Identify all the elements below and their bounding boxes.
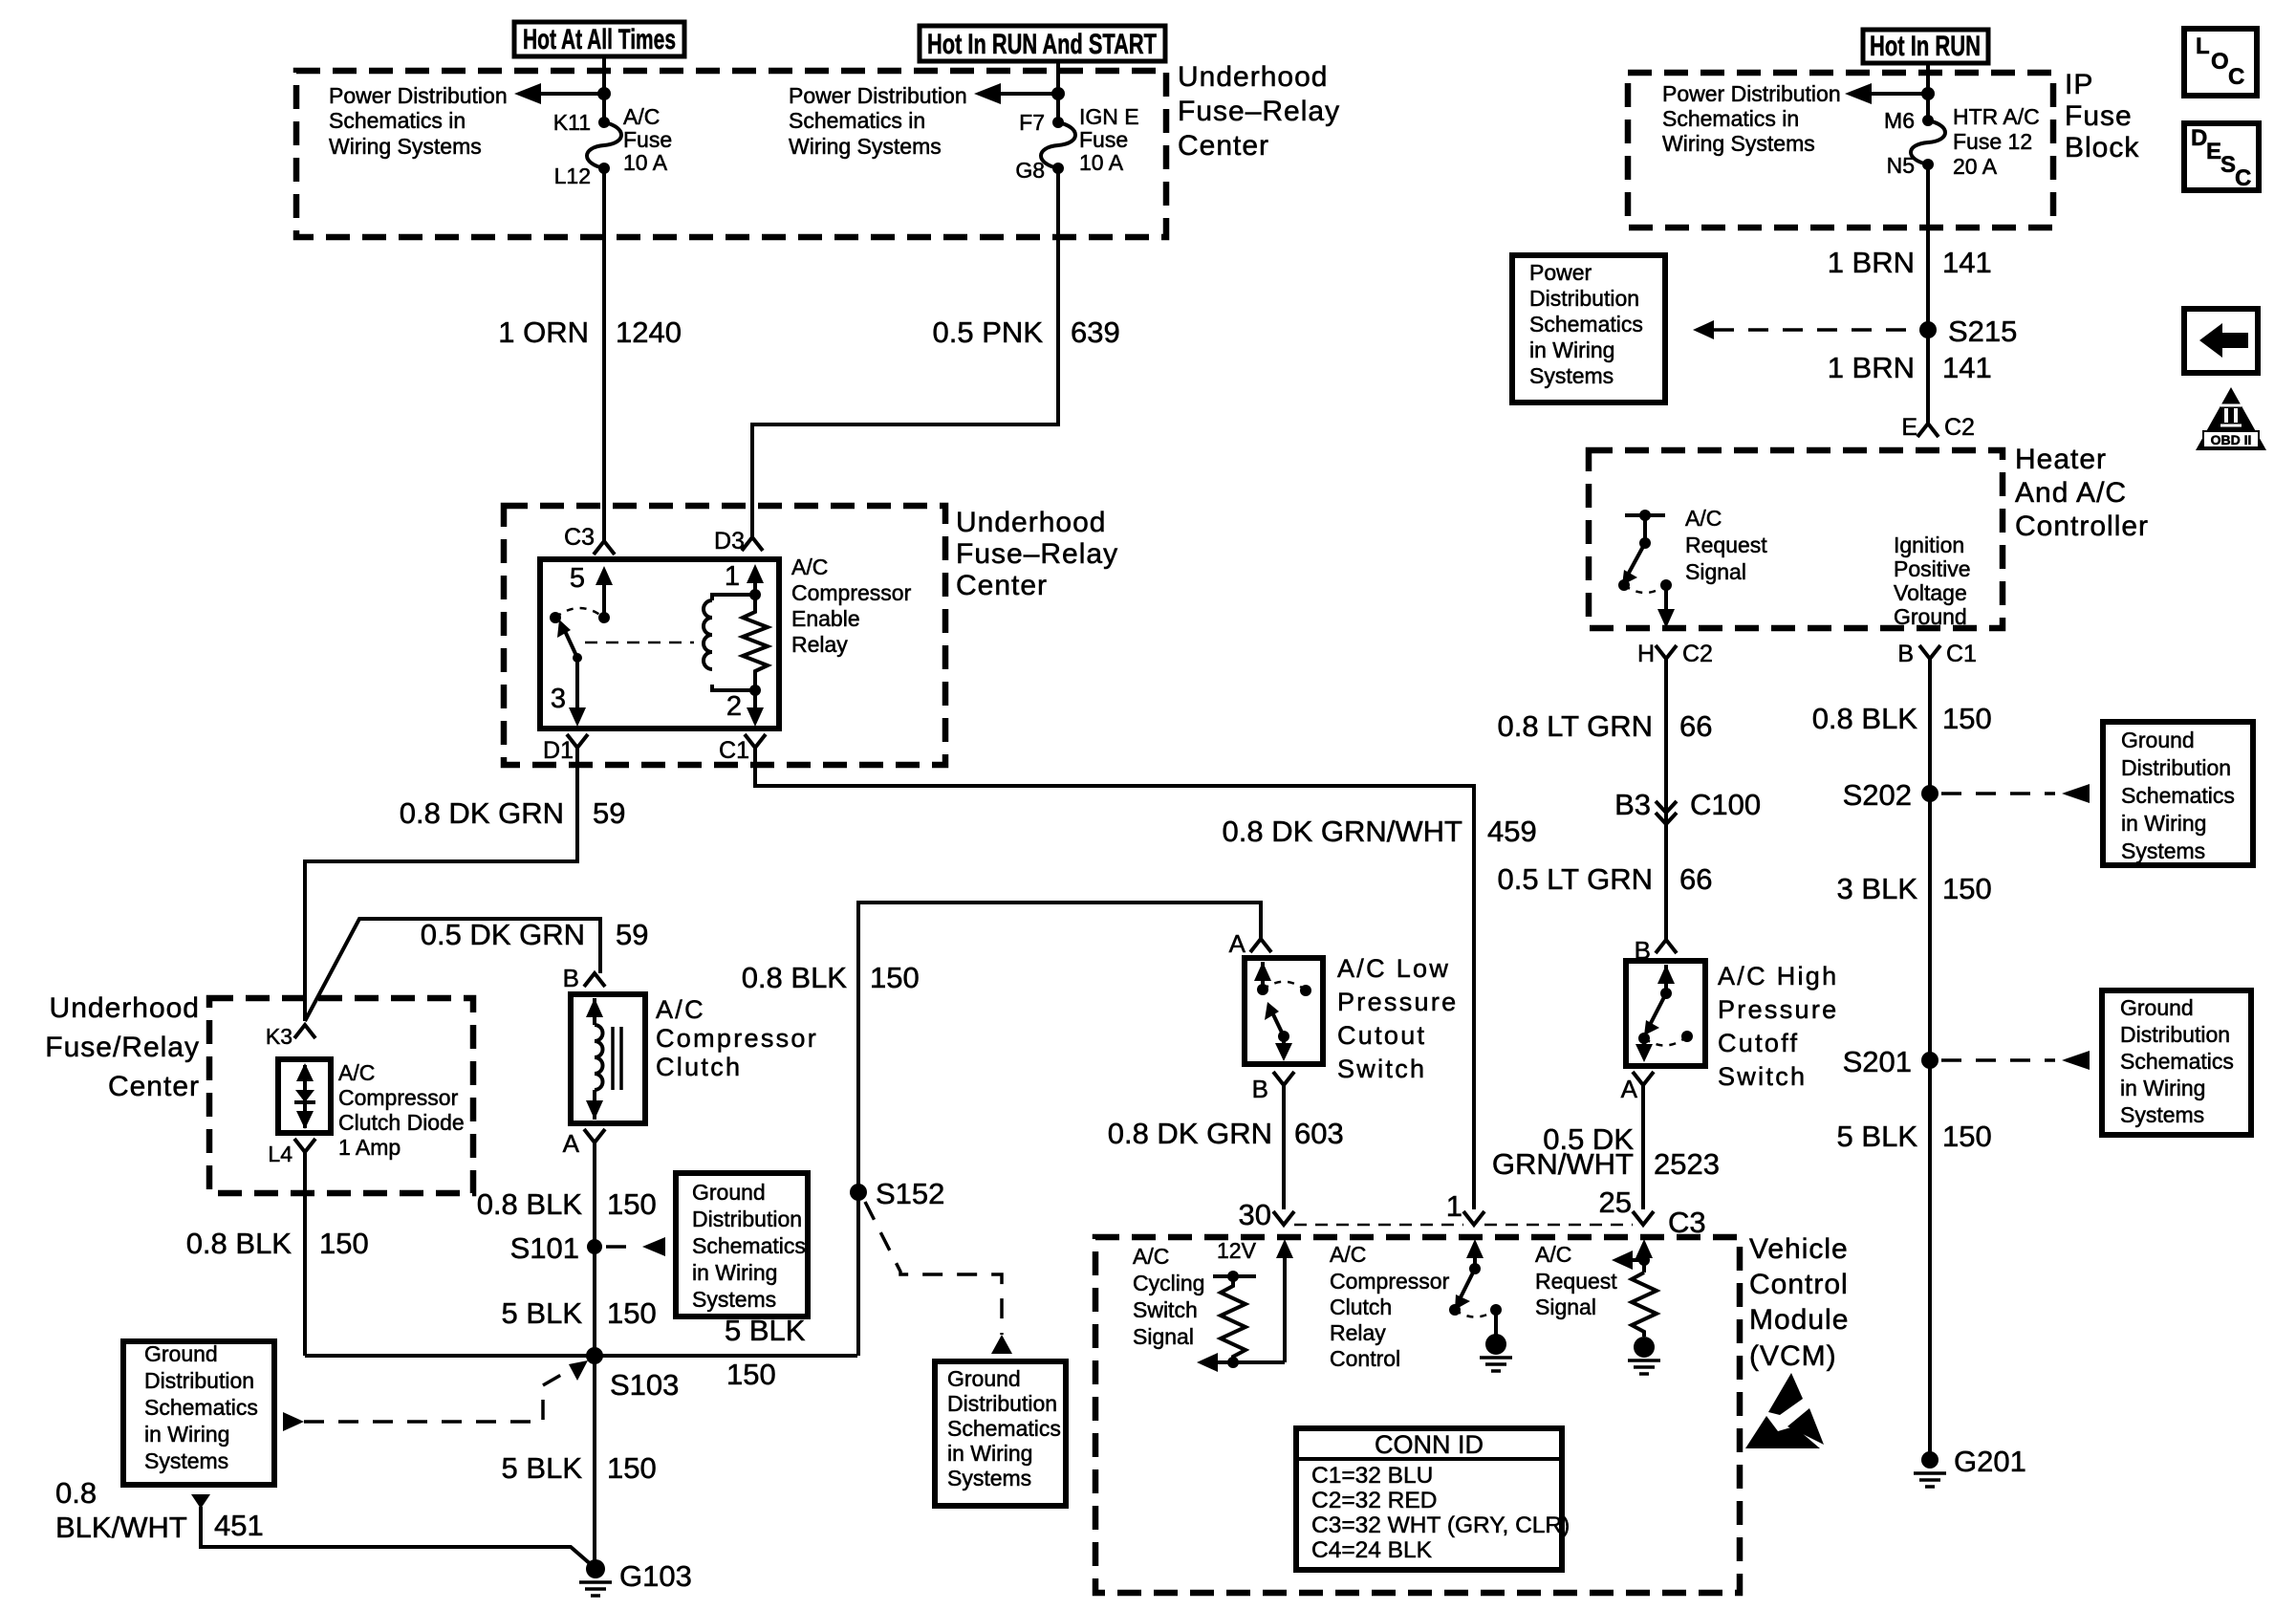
svg-text:Fuse–Relay: Fuse–Relay: [1178, 96, 1340, 127]
switch S-A/C Low Pressure Cutout Switch box: [1245, 958, 1323, 1064]
svg-text:5 BLK: 5 BLK: [502, 1451, 583, 1485]
svg-text:Hot In RUN: Hot In RUN: [1870, 31, 1981, 62]
svg-text:150: 150: [607, 1296, 657, 1330]
svg-text:Pressure: Pressure: [1718, 995, 1838, 1024]
svg-text:12V: 12V: [1217, 1238, 1257, 1263]
svg-text:C1: C1: [719, 737, 749, 764]
svg-text:2: 2: [726, 691, 742, 722]
wire arrow to Power Distribution (mid fuse): [974, 83, 1058, 104]
svg-text:A/C: A/C: [1133, 1244, 1169, 1269]
wire 0.8 DK GRN/WHT 459: relay C1 to VCM pin 1: [755, 748, 1474, 1209]
svg-text:Underhood: Underhood: [956, 507, 1106, 538]
svg-text:Schematics: Schematics: [2120, 1049, 2234, 1074]
wire label 5 BLK 150 (above S103): [502, 1296, 657, 1330]
Power Distribution Schematics in Wiring Systems text (left): [329, 83, 508, 159]
svg-text:A/C Low: A/C Low: [1337, 954, 1450, 983]
box Ground Distribution Schematics (S152): [935, 1361, 1066, 1506]
svg-text:0.5 DK GRN: 0.5 DK GRN: [421, 918, 585, 951]
label Underhood Fuse/Relay Center: [45, 992, 200, 1102]
svg-text:Distribution: Distribution: [2121, 755, 2231, 780]
svg-text:B3: B3: [1614, 788, 1651, 821]
svg-text:Schematics in: Schematics in: [1662, 106, 1799, 131]
wire label 0.8 BLK 150 (right): [1812, 702, 1992, 735]
svg-text:S202: S202: [1843, 778, 1912, 812]
svg-text:Enable: Enable: [791, 606, 860, 631]
svg-text:1240: 1240: [616, 315, 682, 349]
svg-text:0.8 DK GRN/WHT: 0.8 DK GRN/WHT: [1223, 815, 1463, 848]
svg-text:Systems: Systems: [1529, 363, 1614, 388]
svg-text:A: A: [1229, 929, 1246, 958]
box Ground Distribution Schematics (S103): [123, 1341, 274, 1485]
svg-text:5 BLK: 5 BLK: [1837, 1120, 1918, 1153]
svg-text:0.8 BLK: 0.8 BLK: [477, 1187, 583, 1221]
svg-text:A: A: [1621, 1075, 1638, 1103]
node E C2 connector into controller: [1901, 414, 1975, 441]
svg-text:in Wiring: in Wiring: [2121, 811, 2206, 836]
value A/C Fuse 10 A: [623, 104, 672, 175]
label A/C Request Signal (VCM): [1535, 1242, 1617, 1319]
wire arrow to Power Distribution (IP): [1845, 83, 1928, 104]
svg-text:Fuse/Relay: Fuse/Relay: [45, 1032, 200, 1063]
svg-text:59: 59: [616, 918, 648, 951]
svg-text:C4=24 BLK: C4=24 BLK: [1311, 1537, 1433, 1563]
svg-text:C1: C1: [1946, 641, 1977, 667]
box Ground Distribution Schematics (S101): [676, 1173, 808, 1316]
svg-text:A/C: A/C: [1330, 1242, 1366, 1267]
svg-text:B: B: [563, 964, 579, 992]
svg-text:Underhood: Underhood: [1178, 61, 1328, 93]
svg-text:L4: L4: [268, 1142, 292, 1166]
svg-text:Schematics: Schematics: [2121, 783, 2235, 808]
svg-text:0.8 BLK: 0.8 BLK: [186, 1227, 292, 1260]
svg-text:L: L: [2196, 33, 2210, 59]
ground G201: [1914, 1445, 2026, 1487]
svg-text:Hot At All Times: Hot At All Times: [523, 24, 676, 55]
label Heater And A/C Controller: [2015, 444, 2149, 542]
svg-text:Vehicle: Vehicle: [1749, 1233, 1849, 1265]
svg-text:C: C: [2235, 165, 2251, 191]
svg-text:150: 150: [1942, 872, 1992, 905]
svg-text:Center: Center: [1178, 130, 1269, 162]
header box Hot In RUN And START: [920, 26, 1165, 61]
svg-text:Block: Block: [2065, 132, 2139, 163]
wire dashed reference S103: [283, 1360, 588, 1431]
svg-text:in Wiring: in Wiring: [2120, 1076, 2205, 1100]
svg-text:K3: K3: [266, 1024, 292, 1049]
wire cycling signal with arrows: [1197, 1239, 1293, 1372]
svg-text:H: H: [1637, 641, 1655, 667]
svg-text:Relay: Relay: [791, 632, 848, 657]
svg-text:Clutch Diode: Clutch Diode: [338, 1110, 465, 1135]
fuse M6/N5 HTR A/C Fuse 12 20 A: [1911, 115, 1945, 170]
svg-text:Schematics in: Schematics in: [789, 108, 925, 133]
svg-text:5 BLK: 5 BLK: [725, 1314, 806, 1347]
svg-text:Fuse: Fuse: [1079, 127, 1128, 152]
wire label 0.5 DK GRN/WHT 2523: [1492, 1122, 1720, 1181]
svg-text:BLK/WHT: BLK/WHT: [55, 1511, 187, 1544]
relay switch arm: [557, 620, 577, 658]
svg-text:150: 150: [1942, 1120, 1992, 1153]
wire dashed reference S202: [1941, 784, 2090, 803]
svg-text:0.8 BLK: 0.8 BLK: [742, 961, 848, 994]
box Ground Distribution Schematics (S201): [2102, 990, 2251, 1135]
svg-text:And A/C: And A/C: [2015, 477, 2127, 509]
wire label 1 ORN 1240: [498, 315, 682, 349]
svg-text:L12: L12: [554, 163, 591, 188]
svg-text:Distribution: Distribution: [1529, 286, 1639, 311]
wire dashed reference S201: [1941, 1051, 2090, 1070]
wire label 0.5 LT GRN 66: [1497, 862, 1712, 896]
svg-text:25: 25: [1599, 1186, 1632, 1219]
svg-text:Signal: Signal: [1535, 1295, 1596, 1319]
wire clutch A to G103: [593, 1142, 596, 1566]
svg-text:Underhood: Underhood: [50, 992, 200, 1024]
label A/C Compressor Clutch: [656, 995, 818, 1081]
svg-text:Ground: Ground: [144, 1341, 218, 1366]
wire label 0.8 BLK 150 (left): [186, 1227, 369, 1260]
wire 0.5 DK GRN/WHT 2523: high switch A to VCM pin 25: [1641, 1085, 1645, 1209]
node B connector clutch: [563, 964, 605, 992]
node A connector high pressure switch: [1621, 1072, 1654, 1103]
svg-text:A/C: A/C: [338, 1060, 375, 1085]
label Underhood Fuse-Relay Center (top): [1178, 61, 1340, 162]
svg-text:A/C: A/C: [1685, 506, 1722, 531]
label A/C Compressor Enable Relay: [791, 555, 912, 657]
label Vehicle Control Module (VCM): [1749, 1233, 1849, 1372]
relay K-A/C Compressor Enable Relay box: [540, 559, 779, 729]
dashed box Underhood Fuse-Relay Center (top): [296, 71, 1166, 237]
svg-text:Distribution: Distribution: [947, 1391, 1057, 1416]
svg-text:150: 150: [607, 1187, 657, 1221]
svg-text:Ground: Ground: [2121, 728, 2195, 752]
svg-text:Wiring Systems: Wiring Systems: [789, 134, 942, 159]
svg-text:S152: S152: [876, 1177, 944, 1210]
node B C1 connector: [1897, 641, 1977, 667]
svg-text:Power Distribution: Power Distribution: [789, 83, 967, 108]
node D3 connector into relay: [714, 528, 763, 555]
node junction on IP fuse wire: [1921, 87, 1935, 100]
wire thin dashed pin row VCM: [1294, 1224, 1633, 1227]
wire label 0.5 PNK 639: [933, 315, 1120, 349]
svg-text:Distribution: Distribution: [144, 1368, 254, 1393]
svg-text:Relay: Relay: [1330, 1320, 1386, 1345]
svg-text:Schematics in: Schematics in: [329, 108, 466, 133]
svg-text:HTR A/C: HTR A/C: [1953, 104, 2040, 129]
svg-text:C2: C2: [1682, 641, 1713, 667]
svg-text:CONN ID: CONN ID: [1375, 1430, 1484, 1459]
value IGN E Fuse 10 A: [1079, 104, 1139, 175]
node pin 30 connector VCM: [1239, 1198, 1294, 1231]
svg-text:Hot In RUN And START: Hot In RUN And START: [927, 29, 1157, 60]
wire dashed reference S101: [606, 1237, 665, 1256]
svg-text:639: 639: [1071, 315, 1120, 349]
node pin 1 connector VCM: [1446, 1189, 1484, 1225]
fuse F7/G8 IGN E Fuse 10 A: [1041, 117, 1075, 174]
svg-text:10 A: 10 A: [1079, 150, 1124, 175]
svg-text:Ground: Ground: [947, 1366, 1021, 1391]
Power Distribution Schematics in Wiring Systems text (mid): [789, 83, 967, 159]
svg-text:1 ORN: 1 ORN: [498, 315, 589, 349]
svg-text:Cutout: Cutout: [1337, 1021, 1426, 1050]
icon back-arrow box: [2184, 309, 2258, 373]
svg-text:Schematics: Schematics: [144, 1395, 258, 1420]
box Power Distribution Schematics in Wiring (S215): [1512, 255, 1665, 402]
svg-text:Distribution: Distribution: [2120, 1022, 2230, 1047]
relay coil link dashed: [585, 642, 694, 644]
relay switch dashed arc: [555, 608, 604, 618]
svg-text:Ground: Ground: [692, 1180, 766, 1205]
svg-text:in Wiring: in Wiring: [1529, 337, 1614, 362]
svg-text:66: 66: [1679, 862, 1712, 896]
motor M-A/C Compressor Clutch box: [571, 994, 645, 1123]
svg-text:C3=32 WHT (GRY, CLR): C3=32 WHT (GRY, CLR): [1311, 1512, 1570, 1538]
svg-text:A/C: A/C: [791, 555, 828, 579]
svg-text:Signal: Signal: [1685, 559, 1746, 584]
svg-text:N5: N5: [1887, 153, 1915, 178]
svg-text:IGN E: IGN E: [1079, 104, 1139, 129]
wire label 5 BLK 150 (right): [1837, 1120, 1992, 1153]
svg-text:A: A: [563, 1129, 580, 1158]
svg-text:0.8 LT GRN: 0.8 LT GRN: [1497, 709, 1653, 743]
svg-text:0.8 BLK: 0.8 BLK: [1812, 702, 1918, 735]
svg-text:A/C High: A/C High: [1718, 962, 1838, 990]
wire label 0.8 BLK/WHT 451: [55, 1476, 264, 1544]
svg-text:C3: C3: [564, 524, 595, 551]
switch relay control driver: [1449, 1239, 1502, 1335]
ground internal (relay control): [1480, 1334, 1512, 1371]
svg-text:D3: D3: [714, 528, 745, 555]
svg-text:Switch: Switch: [1337, 1055, 1426, 1083]
label A/C Compressor Clutch Relay Control: [1330, 1242, 1450, 1371]
wire 0.5 DK GRN 59: K3 to clutch B (diagonal branch): [305, 919, 600, 1021]
svg-text:GRN/WHT: GRN/WHT: [1492, 1147, 1634, 1181]
header box Hot At All Times: [514, 22, 684, 56]
wire PNK: Hot In RUN And START to relay D3: [752, 61, 1058, 537]
svg-text:D: D: [2191, 125, 2207, 151]
svg-text:B: B: [1252, 1075, 1268, 1103]
node K3 connector: [266, 1024, 315, 1049]
svg-text:E: E: [2206, 139, 2221, 164]
node pin 25 connector VCM: [1599, 1186, 1654, 1225]
relay resistor (internal): [743, 595, 768, 690]
wire label 0.8 DK GRN 59: [400, 796, 626, 830]
svg-text:A/C: A/C: [1535, 1242, 1571, 1267]
svg-text:Module: Module: [1749, 1304, 1849, 1336]
diode D-A/C Compressor Clutch Diode box: [278, 1059, 331, 1133]
svg-text:Request: Request: [1685, 533, 1767, 557]
arrow to ground box (S152): [991, 1335, 1012, 1354]
svg-text:G8: G8: [1015, 158, 1045, 183]
label A/C Compressor Clutch Diode 1 Amp: [338, 1060, 465, 1160]
node H C2 connector: [1637, 641, 1713, 667]
svg-text:Power: Power: [1529, 260, 1592, 285]
svg-text:C1=32 BLU: C1=32 BLU: [1311, 1463, 1433, 1489]
wire 0.8 BLK 150: low pressure switch A to S152/S103 bus: [858, 903, 1261, 1356]
svg-text:Request: Request: [1535, 1269, 1617, 1294]
switch A/C Request Signal (controller): [1618, 510, 1675, 628]
svg-text:Wiring Systems: Wiring Systems: [329, 134, 482, 159]
node junction on PNK wire: [1051, 87, 1065, 100]
svg-text:O: O: [2211, 49, 2229, 75]
relay switch common contact: [550, 612, 561, 623]
svg-text:Ignition: Ignition: [1894, 533, 1964, 557]
dashed box Vehicle Control Module: [1095, 1237, 1740, 1593]
svg-text:Center: Center: [108, 1071, 200, 1102]
svg-text:Positive: Positive: [1894, 556, 1971, 581]
svg-text:A/C: A/C: [656, 995, 705, 1024]
svg-text:D1: D1: [543, 737, 574, 764]
high pressure switch internals: [1635, 965, 1693, 1062]
svg-text:1: 1: [725, 561, 740, 592]
wire label 0.8 DK GRN 603: [1108, 1117, 1344, 1150]
svg-text:Systems: Systems: [692, 1287, 776, 1312]
resistor A/C cycling pull-up: [1213, 1271, 1256, 1368]
svg-text:0.8 DK GRN: 0.8 DK GRN: [400, 796, 564, 830]
svg-text:Compressor: Compressor: [656, 1024, 818, 1053]
svg-text:C2=32 RED: C2=32 RED: [1311, 1488, 1437, 1513]
node L4 connector: [268, 1139, 315, 1166]
clutch coil internals: [586, 998, 621, 1120]
label IP Fuse Block: [2065, 69, 2139, 163]
svg-text:S: S: [2220, 152, 2236, 178]
resistor A/C request sense: [1612, 1239, 1657, 1337]
svg-text:30: 30: [1239, 1198, 1271, 1231]
svg-text:Signal: Signal: [1133, 1324, 1194, 1349]
svg-text:Cutoff: Cutoff: [1718, 1029, 1799, 1057]
svg-text:Systems: Systems: [2121, 838, 2205, 863]
svg-text:C: C: [2228, 64, 2244, 90]
svg-text:Cycling: Cycling: [1133, 1271, 1204, 1295]
wire dashed reference S152: [865, 1202, 1002, 1335]
node S202 splice: [1843, 778, 1939, 812]
svg-text:C2: C2: [1944, 414, 1975, 441]
svg-text:20 A: 20 A: [1953, 154, 1998, 179]
svg-text:Heater: Heater: [2015, 444, 2107, 475]
low pressure switch internals: [1254, 962, 1311, 1061]
svg-text:150: 150: [1942, 702, 1992, 735]
switch S-A/C High Pressure Cutoff Switch box: [1626, 961, 1705, 1066]
svg-text:1: 1: [1446, 1189, 1462, 1223]
label A/C Request Signal (controller): [1685, 506, 1767, 584]
node S152 splice: [850, 1177, 944, 1210]
svg-text:0.5 LT GRN: 0.5 LT GRN: [1497, 862, 1653, 896]
svg-text:Control: Control: [1749, 1269, 1849, 1300]
svg-text:3 BLK: 3 BLK: [1837, 872, 1918, 905]
svg-text:0.8 DK GRN: 0.8 DK GRN: [1108, 1117, 1272, 1150]
svg-text:C100: C100: [1690, 788, 1761, 821]
svg-text:150: 150: [607, 1451, 657, 1485]
node A connector clutch: [563, 1129, 605, 1158]
svg-text:459: 459: [1487, 815, 1537, 848]
wire label 0.8 BLK 150 (clutch): [477, 1187, 657, 1221]
node S103 splice: [586, 1347, 679, 1402]
wire 0.8 BLK 150: L4 to S103 run: [303, 1152, 307, 1356]
svg-text:603: 603: [1294, 1117, 1344, 1150]
svg-text:Fuse–Relay: Fuse–Relay: [956, 538, 1118, 570]
diode symbol internals: [294, 1063, 315, 1129]
svg-text:Ground: Ground: [1894, 604, 1967, 629]
node junction on ORN wire: [597, 87, 611, 100]
svg-text:K11: K11: [553, 110, 591, 135]
svg-text:M6: M6: [1884, 108, 1915, 133]
wire label 3 BLK 150: [1837, 872, 1992, 905]
wire 0.8 DK GRN 59: relay D1 to K3: [305, 748, 577, 1021]
svg-text:Compressor: Compressor: [1330, 1269, 1450, 1294]
dashed box Underhood Fuse/Relay Center: [209, 998, 473, 1193]
wire label 1 BRN 141 (lower): [1828, 351, 1992, 384]
svg-text:141: 141: [1942, 246, 1992, 279]
svg-text:5 BLK: 5 BLK: [502, 1296, 583, 1330]
node A connector low pressure switch: [1229, 929, 1271, 958]
box Ground Distribution Schematics (S202): [2103, 722, 2253, 865]
svg-text:Schematics: Schematics: [947, 1416, 1061, 1441]
svg-text:Power Distribution: Power Distribution: [329, 83, 508, 108]
ground internal (request signal): [1628, 1337, 1660, 1374]
svg-text:Pressure: Pressure: [1337, 988, 1458, 1016]
ground G103: [579, 1559, 692, 1596]
table CONN ID: [1296, 1428, 1570, 1570]
svg-text:Controller: Controller: [2015, 511, 2149, 542]
svg-text:1 Amp: 1 Amp: [338, 1135, 401, 1160]
pin 3: [551, 653, 586, 727]
svg-text:in Wiring: in Wiring: [144, 1422, 229, 1447]
fuse F-K11/L12 A/C Fuse 10 A: [587, 117, 621, 174]
label A/C Cycling Switch Signal: [1133, 1244, 1204, 1349]
node S201 splice: [1843, 1045, 1939, 1078]
label Ignition Positive Voltage Ground: [1894, 533, 1971, 629]
svg-text:Center: Center: [956, 570, 1048, 601]
svg-text:Systems: Systems: [144, 1448, 228, 1473]
svg-text:Ground: Ground: [2120, 995, 2194, 1020]
svg-text:Fuse: Fuse: [2065, 100, 2133, 132]
wire label 0.8 DK GRN/WHT 459: [1223, 815, 1537, 848]
icon DESC box: [2184, 123, 2259, 191]
node S101 splice: [510, 1231, 602, 1265]
svg-text:Switch: Switch: [1133, 1297, 1198, 1322]
wire dashed reference S215: [1693, 320, 1919, 339]
svg-text:S103: S103: [610, 1368, 679, 1402]
icon LOC box: [2184, 29, 2257, 96]
svg-text:Voltage: Voltage: [1894, 580, 1967, 605]
wire ORN: Hot At All Times box to relay C3: [602, 56, 606, 541]
label A/C Low Pressure Cutout Switch: [1337, 954, 1458, 1083]
node C1 connector below relay: [719, 734, 766, 764]
wire 0.8 BLK/WHT 451 branch: [191, 1494, 593, 1566]
svg-text:in Wiring: in Wiring: [692, 1260, 777, 1285]
pin 2: [726, 690, 764, 727]
svg-text:Systems: Systems: [2120, 1102, 2204, 1127]
svg-text:2523: 2523: [1654, 1147, 1720, 1181]
wire horizontal ground bus at S103: [305, 1354, 857, 1358]
svg-text:0.5 PNK: 0.5 PNK: [933, 315, 1044, 349]
Power Distribution Schematics in Wiring Systems text (IP): [1662, 81, 1841, 156]
svg-text:141: 141: [1942, 351, 1992, 384]
svg-text:Power Distribution: Power Distribution: [1662, 81, 1841, 106]
svg-text:B: B: [1897, 641, 1914, 667]
svg-text:Distribution: Distribution: [692, 1207, 802, 1231]
svg-text:1 BRN: 1 BRN: [1828, 351, 1915, 384]
dashed box Underhood Fuse-Relay Center (relay): [504, 506, 945, 765]
label Underhood Fuse-Relay Center (relay): [956, 507, 1118, 601]
svg-text:Control: Control: [1330, 1346, 1400, 1371]
wire HTR A/C fuse feed: [1926, 63, 1930, 424]
svg-text:3: 3: [551, 684, 566, 714]
svg-text:E: E: [1901, 414, 1917, 441]
node D1 connector below relay: [543, 734, 588, 764]
wire 0.8 DK GRN 603: low switch B to VCM pin 30: [1282, 1085, 1286, 1209]
node B connector low pressure switch: [1252, 1072, 1294, 1103]
wire arrow to Power Distribution (left fuse): [514, 83, 604, 104]
